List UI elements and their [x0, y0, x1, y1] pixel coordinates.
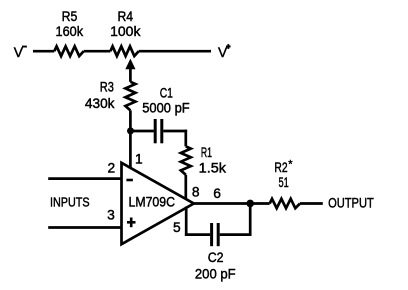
- svg-text:OUTPUT: OUTPUT: [328, 196, 374, 211]
- svg-text:1.5k: 1.5k: [199, 160, 226, 175]
- svg-text:100k: 100k: [110, 24, 140, 39]
- svg-text:3: 3: [107, 208, 115, 223]
- svg-text:1: 1: [135, 152, 143, 167]
- svg-text:V: V: [218, 45, 228, 60]
- svg-text:C1: C1: [160, 86, 173, 101]
- svg-text:C2: C2: [208, 250, 224, 265]
- svg-text:R3: R3: [100, 80, 114, 95]
- svg-text:R5: R5: [62, 9, 78, 24]
- svg-text:R4: R4: [118, 9, 134, 24]
- svg-text:R1: R1: [201, 145, 212, 160]
- svg-text:8: 8: [192, 185, 200, 200]
- svg-text:6: 6: [213, 186, 221, 201]
- svg-text:R2: R2: [274, 160, 287, 175]
- svg-text:430k: 430k: [85, 96, 115, 111]
- svg-text:LM709C: LM709C: [129, 194, 176, 209]
- svg-text:160k: 160k: [56, 24, 84, 39]
- svg-text:200 pF: 200 pF: [195, 266, 236, 281]
- svg-text:INPUTS: INPUTS: [50, 195, 90, 210]
- svg-text:5: 5: [173, 220, 181, 235]
- svg-text:5000 pF: 5000 pF: [142, 100, 190, 115]
- svg-text:2: 2: [108, 161, 116, 176]
- svg-text:*: *: [288, 158, 293, 170]
- svg-text:51: 51: [279, 175, 289, 190]
